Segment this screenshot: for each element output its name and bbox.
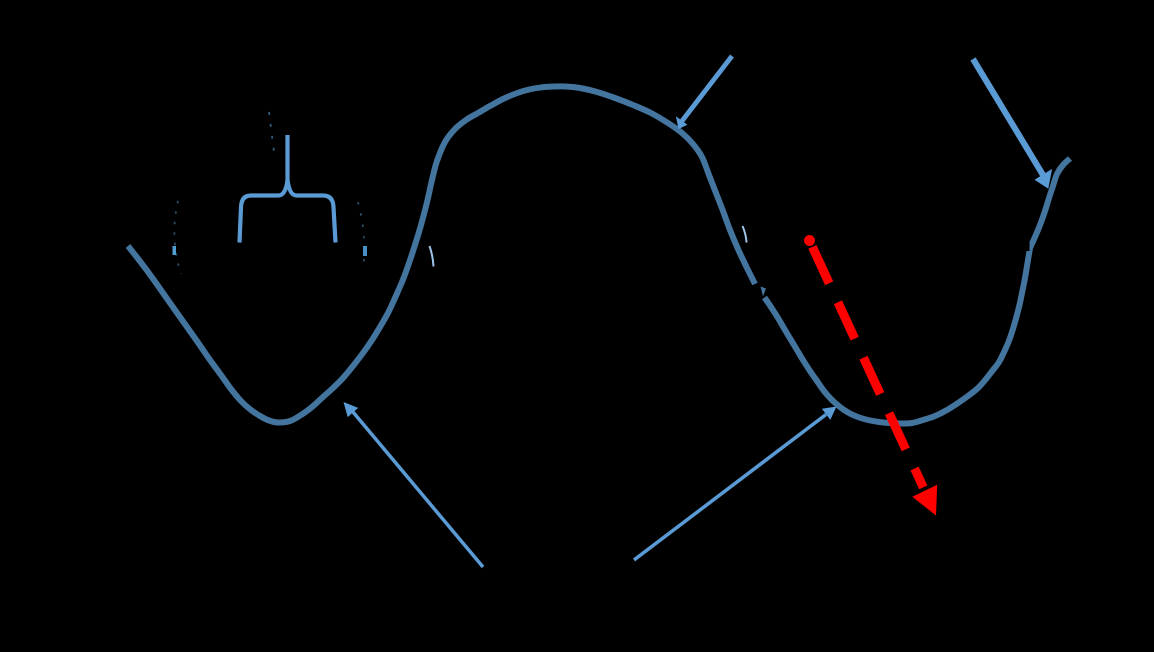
red dashed transition line — [812, 247, 923, 488]
faint glyph remnant: right parenthesis — [358, 202, 364, 270]
arrow B head — [1035, 169, 1053, 189]
arrow D shaft (to right well) — [634, 415, 826, 561]
arrow A shaft (to hill shoulder) — [682, 56, 732, 121]
faint glyph remnant: bright dash of right parenthesis — [363, 246, 367, 256]
faint glyph remnant: bright dash of left parenthesis — [173, 246, 177, 255]
small slash near right descent — [743, 226, 747, 243]
arrow A head — [676, 116, 688, 129]
arrow C head — [344, 402, 359, 417]
faint glyph remnant: column above brace — [269, 112, 274, 152]
black notch at curve kink — [1023, 237, 1030, 252]
faint glyph remnant: left parenthesis — [174, 201, 181, 274]
red dot (start of transition) — [804, 235, 815, 246]
arrow D head — [822, 407, 837, 420]
red arrow head — [912, 485, 937, 516]
arrow C shaft (to left well) — [353, 412, 483, 567]
brace (width marker over left region) — [240, 135, 336, 243]
small fragment at curve break — [761, 287, 767, 297]
small slash near left rise — [430, 246, 434, 267]
potential curve, left segment (left well and hill) — [128, 86, 755, 422]
potential curve, right segment (right well) — [765, 159, 1071, 424]
arrow B shaft (to right rise) — [973, 59, 1043, 175]
